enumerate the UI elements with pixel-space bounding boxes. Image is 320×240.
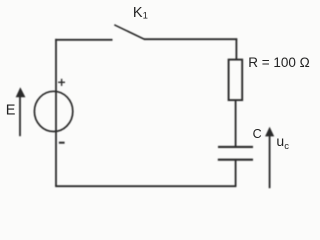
wire: right vertical to resistor [235,38,237,60]
wire: top-right horizontal segment [144,38,237,40]
polarity - mark [59,142,65,144]
uc arrow [265,127,274,188]
resistor R body [229,60,243,101]
E arrow [16,87,26,136]
svg-text:R = 100 Ω: R = 100 Ω [248,55,310,70]
capacitor C top plate [218,146,253,148]
wire: bottom horizontal rail [55,185,236,187]
capacitor C bottom plate [218,159,253,161]
wire: resistor to capacitor [235,100,237,147]
svg-text:E: E [6,103,16,119]
polarity + mark [58,79,65,86]
voltage source E (circle) [34,91,72,131]
wire: left vertical segment [55,39,57,187]
switch K1 lever [114,25,144,40]
wire: top-left horizontal segment [55,39,112,41]
wire: capacitor to bottom rail [235,160,237,187]
svg-text:C: C [253,127,262,141]
